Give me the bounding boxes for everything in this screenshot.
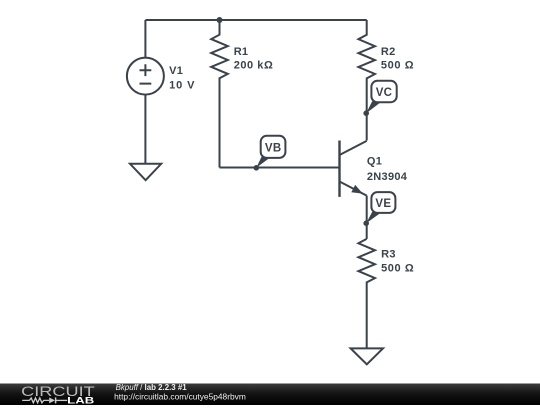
svg-text:R3: R3 (381, 249, 396, 261)
svg-text:500 Ω: 500 Ω (381, 262, 414, 274)
svg-text:VC: VC (376, 87, 393, 99)
svg-text:200 kΩ: 200 kΩ (234, 60, 274, 72)
svg-text:2N3904: 2N3904 (367, 171, 408, 183)
svg-text:10 V: 10 V (169, 79, 195, 91)
svg-text:VB: VB (265, 143, 282, 155)
svg-text:http://circuitlab.com/cutye5p4: http://circuitlab.com/cutye5p48rbvm (114, 392, 246, 402)
svg-text:LAB: LAB (67, 395, 94, 405)
svg-text:500 Ω: 500 Ω (381, 59, 414, 71)
svg-text:R2: R2 (381, 46, 396, 58)
svg-text:V1: V1 (169, 65, 183, 77)
svg-text:R1: R1 (234, 46, 249, 58)
svg-text:Q1: Q1 (367, 156, 382, 168)
svg-text:VE: VE (375, 198, 391, 210)
